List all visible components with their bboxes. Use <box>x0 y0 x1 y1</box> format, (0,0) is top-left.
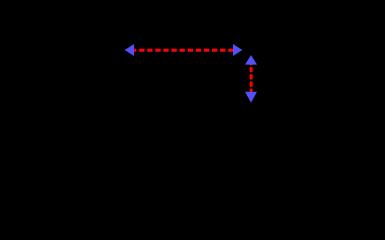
horizontal dimension arrow: left blue arrowhead <box>125 44 135 56</box>
vertical dimension arrow: top blue arrowhead <box>245 55 257 65</box>
horizontal dimension arrow: right blue arrowhead <box>233 44 243 56</box>
vertical dimension arrow: bottom blue arrowhead <box>245 92 257 103</box>
vertical dimension arrow: dashed red line <box>250 60 253 96</box>
horizontal dimension arrow: dashed red line <box>131 49 236 52</box>
